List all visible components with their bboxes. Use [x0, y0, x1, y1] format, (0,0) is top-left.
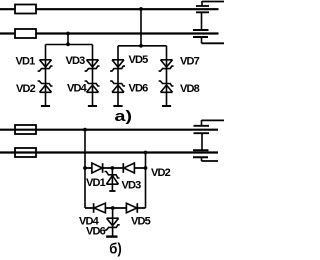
- svg-text:VD6: VD6: [86, 225, 106, 237]
- svg-text:б): б): [109, 241, 122, 258]
- svg-text:VD2: VD2: [16, 83, 36, 95]
- svg-text:VD1: VD1: [16, 55, 36, 67]
- svg-text:VD4: VD4: [67, 83, 88, 95]
- svg-text:VD3: VD3: [122, 180, 142, 192]
- svg-text:VD2: VD2: [151, 167, 171, 179]
- svg-text:VD7: VD7: [180, 55, 200, 67]
- svg-text:VD3: VD3: [66, 55, 86, 67]
- svg-text:VD6: VD6: [129, 83, 149, 95]
- svg-text:VD1: VD1: [86, 177, 106, 189]
- svg-text:VD5: VD5: [131, 216, 151, 228]
- svg-text:а): а): [115, 108, 133, 125]
- svg-text:VD5: VD5: [129, 54, 149, 66]
- svg-text:VD8: VD8: [180, 83, 200, 95]
